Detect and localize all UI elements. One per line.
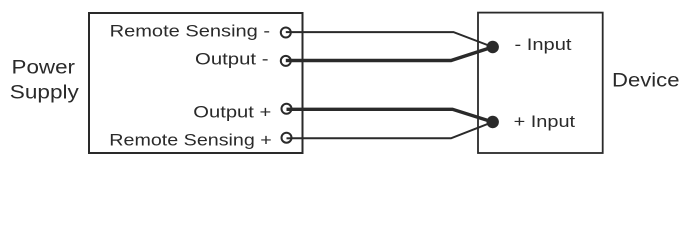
terminal remote sensing + <box>282 133 293 143</box>
wire output + (thick) <box>286 109 492 122</box>
svg-text:Remote Sensing -: Remote Sensing - <box>110 21 271 40</box>
svg-text:Supply: Supply <box>10 83 80 104</box>
svg-text:+ Input: + Input <box>514 112 576 131</box>
svg-text:- Input: - Input <box>515 35 572 54</box>
terminal output - <box>281 56 292 66</box>
svg-text:Remote Sensing +: Remote Sensing + <box>109 131 272 150</box>
wire remote sensing + (thin) <box>287 122 493 138</box>
svg-text:Device: Device <box>612 71 680 92</box>
terminal output + <box>282 104 293 114</box>
power supply box <box>89 13 303 153</box>
svg-text:Power: Power <box>12 58 76 79</box>
svg-text:Output +: Output + <box>193 103 271 122</box>
wire remote sensing - (thin) <box>286 32 493 47</box>
svg-text:Output -: Output - <box>195 50 269 69</box>
wire output - (thick) <box>286 47 493 61</box>
device box <box>478 13 603 153</box>
terminal remote sensing - <box>281 28 292 38</box>
node - input junction dot <box>487 41 499 53</box>
node + input junction dot <box>487 116 499 128</box>
